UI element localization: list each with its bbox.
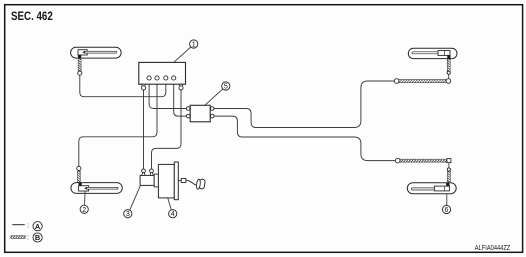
svg-text:6: 6 [445,206,449,214]
hose2 union circle [77,166,81,170]
svg-text:ALFIA0444ZZ: ALFIA0444ZZ [475,245,511,252]
junction connector 5 body [190,105,210,122]
wire: actuator right nub to master cylinder right port [152,90,182,170]
hose2 inner fitting block [79,186,89,191]
FL tube arrow tip [82,51,85,54]
wire: port4 of actuator to junction lower-left [174,79,186,116]
legend row A solid line sample [12,224,25,226]
junction port lower-right [210,114,214,118]
wire: port2 of actuator to front hose 2 [79,79,157,166]
label 4 leader [168,198,172,210]
wire: actuator left nub down to master cylinder left port [143,90,145,170]
MC left port circle [142,169,146,173]
legend row B coil bar sample [11,236,25,239]
legend circle B [33,233,42,242]
label 2 circle [80,205,88,214]
master cylinder body (item 3) [140,175,154,185]
actuator port circle p3 [164,76,168,80]
FL hose inner fitting block [78,50,87,55]
svg-text:SEC. 462: SEC. 462 [11,10,53,23]
RL short link wire [448,74,450,78]
wire: port1 of actuator to junction upper-left [149,79,186,109]
RR short link wire [448,163,450,168]
actuator port circle p4 [172,76,176,80]
booster push rod [178,179,181,181]
svg-text::: : [27,233,29,242]
FL hose end black square [78,55,81,58]
RL small union circle [447,71,450,74]
label 6 circle [442,205,450,214]
front-right brake hose capsule (item 2) [71,183,122,194]
hose2 tube arrow tip [84,187,86,190]
legend circle A [33,222,42,231]
svg-text:A: A [35,222,41,231]
rod cable to knob [186,180,197,185]
junction port lower-left [186,114,190,118]
MC right port stem [150,173,153,176]
MC left port stem [142,173,145,176]
svg-text:1: 1 [192,41,196,49]
label 5 leader [205,89,223,106]
svg-text::: : [27,220,29,229]
knob edge crescent ellipse [196,179,201,189]
actuator port circle p1 [147,76,151,80]
RL hose end black square [447,55,450,58]
rear-right hose pipe coil bar [400,159,447,162]
junction port upper-right [210,107,214,111]
RR bar right square cap [447,159,451,163]
label 1 circle [190,40,198,49]
RL fitting inner step [444,51,446,56]
svg-text:B: B [35,233,40,242]
rod end fitting [181,178,186,182]
label 3 circle [124,210,132,219]
booster flange [154,174,158,187]
RR small union circle [447,168,450,171]
RL vertical coil [447,59,450,71]
hose2 end black square [79,183,82,186]
wire: junction lower-right to rear hose RR [212,116,396,161]
actuator left inlet nub [141,84,145,90]
svg-text:3: 3 [126,210,130,218]
RR hose end black square [446,183,449,186]
junction port upper-left [186,107,190,111]
booster rear plate [174,162,178,200]
rear-right brake hose capsule (item 6) [407,183,456,194]
actuator right inlet nub [179,84,183,90]
knob body rounded rect [199,179,206,189]
FL hose union circle [78,71,82,75]
RL hose inner fitting block [438,51,450,56]
svg-text:2: 2 [82,206,86,214]
wire: port3 of actuator to front hose FL [80,75,166,97]
label 5 circle [222,82,230,91]
label 1 leader [174,47,191,62]
label 2 leader [84,191,87,205]
RR bar left union circle [395,158,400,163]
brake booster body (item 4) [158,164,174,198]
svg-text:4: 4 [171,210,175,218]
wire: junction upper-right to rear hose RL [212,81,395,128]
FL hose coil section [78,58,81,70]
label 4 circle [169,210,177,219]
hose2 coil section [77,171,80,182]
RR fitting inner step [444,186,446,191]
front-left brake hose capsule [71,47,122,58]
RR hose inner tube [411,188,439,190]
rear-left hose pipe coil bar [399,80,447,83]
RL bar right union circle [446,79,451,84]
RL hose inner tube [412,52,441,54]
ABS actuator U1 body [139,62,186,84]
label 6 leader [446,194,448,206]
hose2 inner tube [87,187,118,189]
MC right port circle [150,169,154,173]
rear-left brake hose capsule [408,48,457,58]
RL bar left union circle [394,79,399,84]
RR hose inner fitting block [434,186,449,191]
svg-text:5: 5 [224,83,228,91]
RR vertical coil [447,171,450,182]
actuator port circle p2 [155,76,159,80]
FL hose inner tube [85,51,117,53]
label 3 leader [130,186,141,210]
